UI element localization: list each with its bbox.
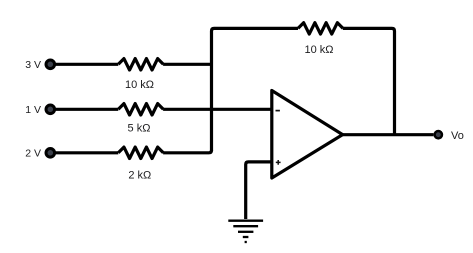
wire row2 from R2 to op-amp inverting input xyxy=(163,108,272,111)
svg-text:Vo: Vo xyxy=(451,130,464,142)
resistor R4 10 kΩ feedback zigzag xyxy=(298,23,343,34)
wire row2 from terminal to resistor R2 xyxy=(56,108,119,111)
wire op-amp output to terminal Vo xyxy=(343,133,434,136)
op-amp U1 triangle xyxy=(272,91,343,179)
svg-text:2 kΩ: 2 kΩ xyxy=(128,169,151,181)
wire row3 from terminal to resistor R3 xyxy=(56,151,119,154)
op-amp U1 minus sign (inverting input) xyxy=(276,110,280,112)
svg-text:1 V: 1 V xyxy=(25,104,41,116)
resistor R2 5 kΩ zigzag xyxy=(118,104,163,115)
wire summing bus vertical and top feedback run to R4 xyxy=(212,28,299,151)
terminal Vo output xyxy=(433,130,443,140)
wire feedback from R4 down to output node xyxy=(343,28,395,134)
wire row1 from R1 to summing bus xyxy=(163,63,211,66)
wire row3 from R3 to summing bus xyxy=(163,150,211,153)
wire row1 from terminal to resistor R1 xyxy=(56,63,119,66)
svg-text:10 kΩ: 10 kΩ xyxy=(304,44,333,56)
terminal 1V xyxy=(45,104,57,116)
resistor R3 2 kΩ zigzag xyxy=(118,147,163,158)
svg-text:10 kΩ: 10 kΩ xyxy=(125,79,154,91)
svg-text:2 V: 2 V xyxy=(25,147,41,159)
svg-text:3 V: 3 V xyxy=(25,59,41,71)
terminal 2V xyxy=(45,147,57,159)
ground symbol xyxy=(228,221,263,242)
wire non-inverting input to ground xyxy=(246,162,272,219)
resistor R1 10 kΩ zigzag xyxy=(118,59,163,70)
op-amp U1 plus sign (non-inverting input) xyxy=(276,160,281,165)
svg-text:5 kΩ: 5 kΩ xyxy=(128,123,151,135)
terminal 3V xyxy=(45,59,57,71)
